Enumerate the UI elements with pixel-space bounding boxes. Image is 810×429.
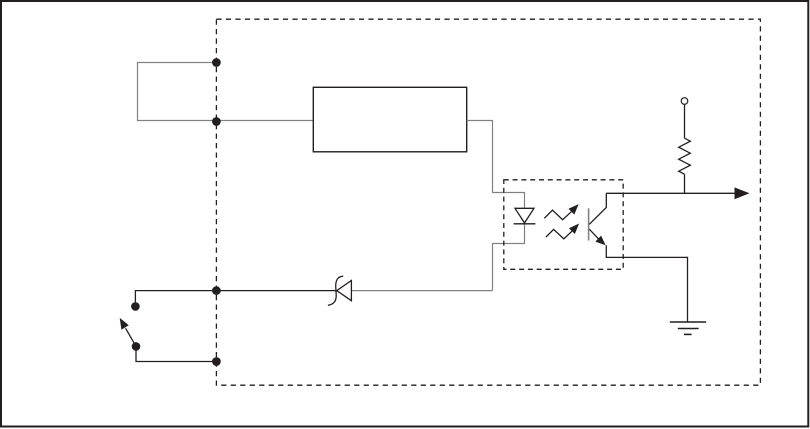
module boundary dashed box	[216, 19, 760, 385]
resistor R1 zigzag	[679, 138, 691, 174]
wire: LED cathode down-left (grey)	[493, 224, 525, 291]
phototransistor Q1 collector	[589, 193, 606, 224]
wire: diode anode to switch (black)	[135, 291, 336, 303]
diode D1 triangle	[337, 281, 352, 301]
wire: terminal to resistor	[684, 104, 686, 138]
wire: resistor to output line	[684, 174, 686, 193]
optocoupler U2 dashed box	[504, 180, 623, 269]
output arrowhead	[735, 187, 750, 199]
switch S1 arm arrowhead	[120, 318, 129, 330]
diode D1 curved cathode	[328, 276, 343, 305]
LED D2 cathode bar	[514, 223, 536, 225]
phototransistor Q1 base bar (grey)	[588, 208, 590, 240]
phototransistor Q1 emitter	[589, 229, 598, 239]
light arrow 2	[546, 229, 572, 239]
light arrow 1	[544, 210, 571, 220]
ground symbol	[670, 322, 706, 334]
switch S1 lower contact dot	[132, 342, 141, 351]
wire: switch lower to node (black)	[136, 350, 216, 362]
phototransistor Q1 emitter arrowhead	[595, 236, 605, 246]
block U1 (rectangle component)	[313, 87, 466, 152]
terminal circle (pull-up top)	[681, 98, 688, 105]
wire: block output to LED anode (grey)	[467, 121, 525, 209]
wire: input loop top-left (grey)	[138, 63, 314, 121]
node A (dot at dashed line, y=62)	[212, 58, 221, 67]
wire: emitter to ground run	[606, 245, 687, 321]
switch S1 upper contact dot	[131, 302, 140, 311]
wire: diode cathode to LED branch (grey)	[351, 290, 492, 292]
switch S1 arm	[126, 328, 136, 346]
LED D2 triangle	[515, 208, 534, 223]
wire: collector output line	[606, 192, 735, 194]
node C (dot at dashed line, y=290.6)	[212, 286, 221, 295]
node D (dot at dashed line, y=361.1)	[212, 357, 221, 366]
node B (dot at dashed line, y=121)	[212, 117, 221, 126]
